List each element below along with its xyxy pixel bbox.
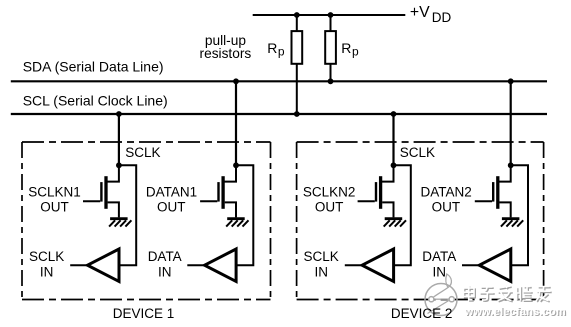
svg-text:DEVICE 2: DEVICE 2 — [391, 306, 453, 321]
svg-text:SCLK: SCLK — [304, 249, 339, 264]
svg-text:+V: +V — [410, 4, 430, 21]
svg-text:DATAN1: DATAN1 — [146, 184, 197, 199]
svg-text:OUT: OUT — [432, 200, 461, 215]
svg-text:SCL (Serial Clock Line): SCL (Serial Clock Line) — [23, 93, 168, 109]
svg-text:SCLK: SCLK — [125, 145, 160, 160]
svg-text:DATA: DATA — [148, 249, 182, 264]
svg-text:www.elecfans.com: www.elecfans.com — [464, 306, 566, 318]
svg-text:p: p — [278, 45, 285, 59]
svg-text:SCLK: SCLK — [29, 249, 64, 264]
svg-text:p: p — [352, 45, 359, 59]
svg-text:DD: DD — [432, 10, 452, 25]
svg-text:R: R — [267, 40, 277, 56]
svg-text:DEVICE 1: DEVICE 1 — [113, 306, 175, 321]
svg-text:SCLKN1: SCLKN1 — [28, 184, 81, 199]
svg-text:DATA: DATA — [422, 249, 456, 264]
svg-text:IN: IN — [433, 265, 447, 280]
svg-text:SCLKN2: SCLKN2 — [303, 184, 356, 199]
svg-text:OUT: OUT — [157, 200, 186, 215]
svg-text:OUT: OUT — [315, 200, 344, 215]
svg-text:OUT: OUT — [40, 200, 69, 215]
svg-text:IN: IN — [158, 265, 172, 280]
svg-text:R: R — [341, 40, 351, 56]
svg-text:SDA (Serial Data Line): SDA (Serial Data Line) — [23, 59, 164, 75]
svg-text:DATAN2: DATAN2 — [420, 184, 471, 199]
svg-text:resistors: resistors — [200, 46, 252, 61]
svg-text:IN: IN — [314, 265, 328, 280]
svg-text:IN: IN — [40, 265, 54, 280]
svg-text:SCLK: SCLK — [400, 145, 435, 160]
